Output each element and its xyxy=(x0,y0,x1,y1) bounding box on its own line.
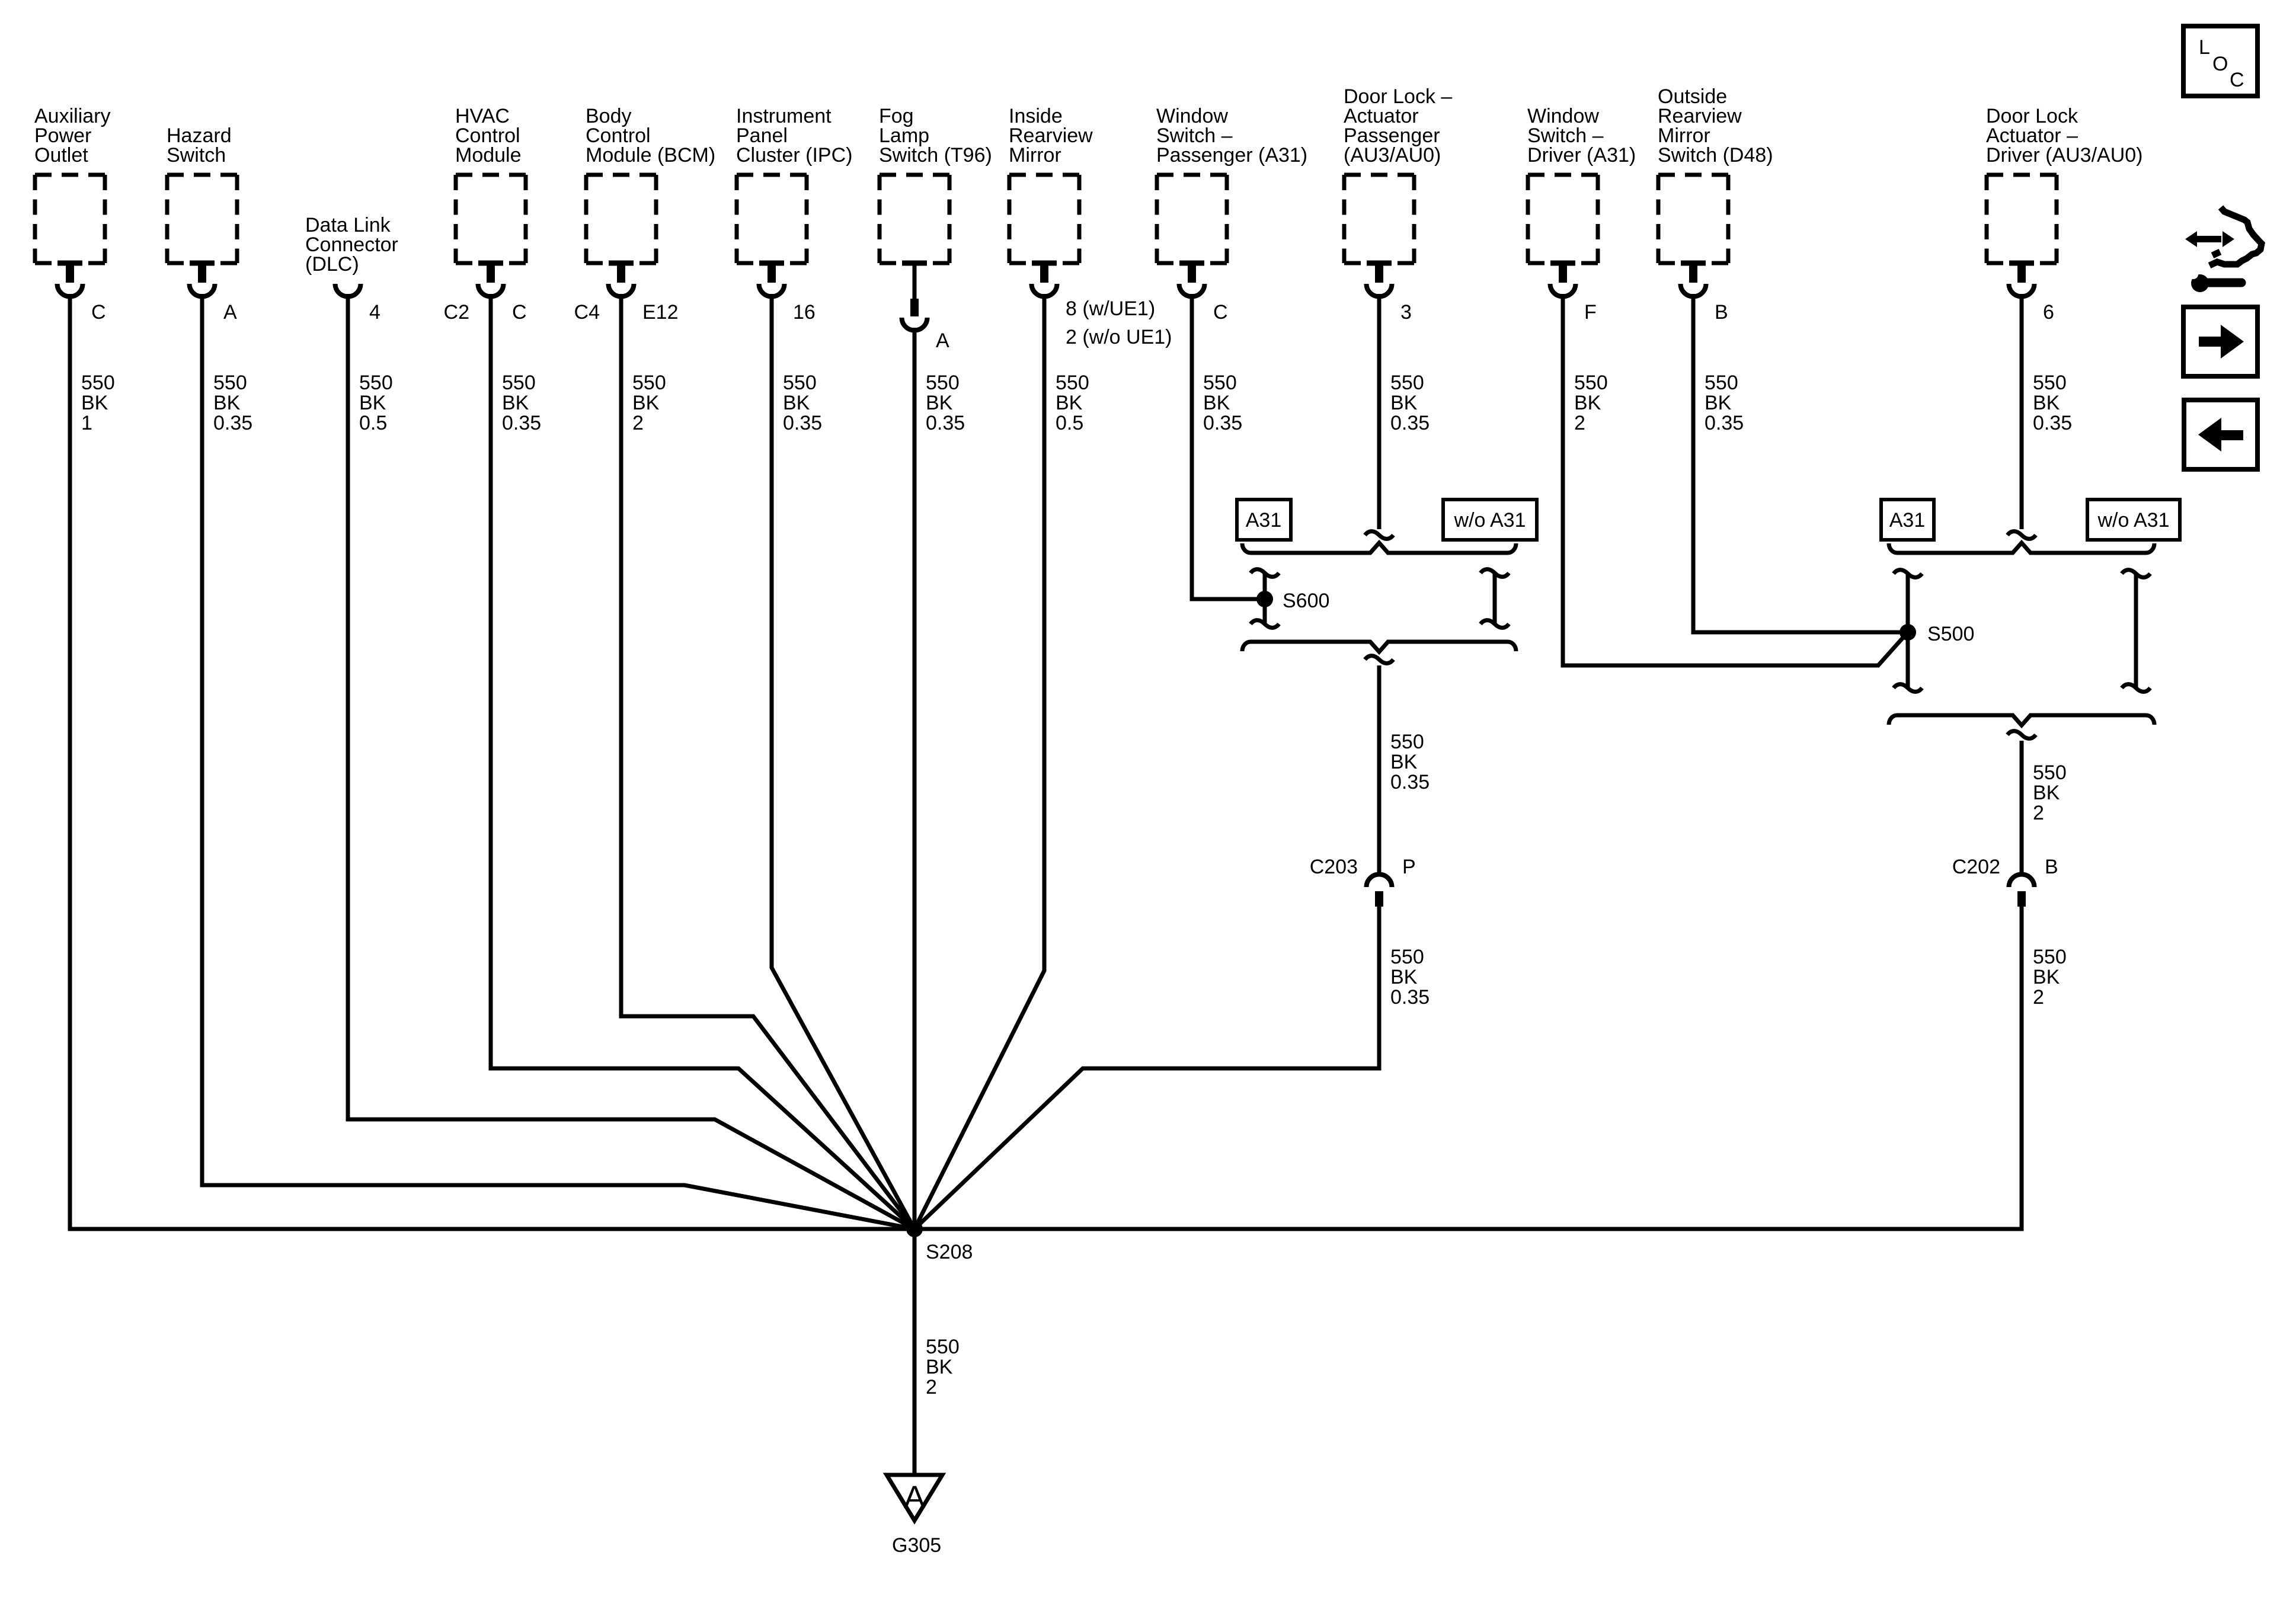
svg-text:BK: BK xyxy=(213,392,241,414)
wire: Window Switch Driver to S500 xyxy=(1563,294,1908,665)
wire label 550 BK 0.35 xyxy=(213,372,252,434)
pin label C xyxy=(1213,301,1228,324)
svg-text:(DLC): (DLC) xyxy=(305,253,359,276)
component label: HVAC Control Module xyxy=(455,105,522,167)
svg-text:S500: S500 xyxy=(1927,623,1974,645)
svg-text:BK: BK xyxy=(81,392,108,414)
svg-text:0.35: 0.35 xyxy=(1705,412,1744,434)
svg-text:2 (w/o UE1): 2 (w/o UE1) xyxy=(1066,326,1172,348)
svg-text:A: A xyxy=(223,301,237,324)
svg-text:550: 550 xyxy=(1390,372,1424,394)
svg-text:550: 550 xyxy=(359,372,393,394)
wire: Auxiliary Power Outlet to ground bus xyxy=(68,294,72,1229)
pin label A xyxy=(936,329,949,352)
connector at Fog xyxy=(902,261,927,266)
component box: Auxiliary xyxy=(35,173,105,177)
component label: Fog Lamp Switch (T96) xyxy=(879,105,992,167)
component box: Outside xyxy=(1658,173,1728,177)
wire: Door Lock Actuator Driver into option brace xyxy=(2020,294,2024,529)
svg-text:2: 2 xyxy=(632,412,644,434)
pin label 3 xyxy=(1400,301,1412,324)
svg-text:S600: S600 xyxy=(1283,590,1329,612)
wire: Hazard to S208 xyxy=(202,294,914,1229)
wire label 550 BK 0.35 (S600 to C203) xyxy=(1390,731,1430,793)
svg-text:550: 550 xyxy=(2033,372,2067,394)
svg-text:BK: BK xyxy=(2033,392,2060,414)
svg-text:550: 550 xyxy=(783,372,817,394)
wire label 550 BK 2 (to ground) xyxy=(926,1336,960,1398)
svg-text:3: 3 xyxy=(1400,301,1412,324)
component box: Door Lock – xyxy=(1344,173,1414,177)
wire label 550 BK 2 (S500 to C202) xyxy=(2033,761,2067,824)
svg-text:0.35: 0.35 xyxy=(1390,986,1430,1009)
pin label E12 xyxy=(574,301,679,324)
option brace top (S600) xyxy=(1242,543,1516,553)
svg-text:2: 2 xyxy=(2033,986,2044,1009)
svg-text:Cluster (IPC): Cluster (IPC) xyxy=(736,144,852,167)
option label box A31 (S500) xyxy=(1881,500,1934,540)
svg-text:Switch (D48): Switch (D48) xyxy=(1658,144,1773,167)
svg-text:550: 550 xyxy=(2033,946,2067,968)
connector at Instrument xyxy=(759,261,784,266)
svg-text:B: B xyxy=(2045,856,2058,878)
pin label 4 xyxy=(369,301,380,324)
component box: Window xyxy=(1157,173,1227,177)
option brace top (S500) xyxy=(1889,543,2154,553)
wire label 550 BK 0.35 xyxy=(926,372,965,434)
svg-text:550: 550 xyxy=(81,372,115,394)
svg-text:550: 550 xyxy=(1390,946,1424,968)
pin label C xyxy=(91,301,106,324)
svg-text:C: C xyxy=(1213,301,1228,324)
wire: HVAC to S208 xyxy=(491,294,914,1229)
component box: Body xyxy=(586,173,656,177)
wrench part of repair icon xyxy=(2191,274,2209,292)
svg-text:C4: C4 xyxy=(574,301,600,324)
svg-text:0.35: 0.35 xyxy=(213,412,252,434)
component box: Door Lock xyxy=(1987,173,2057,177)
connector at Window xyxy=(1179,261,1204,266)
wire: Fog Lamp Switch to S208 xyxy=(913,328,917,1229)
svg-text:F: F xyxy=(1584,301,1597,324)
wire: S500 output to C202 xyxy=(2020,741,2024,875)
wire: C203 to S208 xyxy=(914,907,1379,1229)
svg-text:w/o A31: w/o A31 xyxy=(1454,509,1526,532)
svg-text:(AU3/AU0): (AU3/AU0) xyxy=(1344,144,1441,167)
wire: C202 down to ground bus xyxy=(2020,907,2024,1231)
wire label 550 BK 0.5 xyxy=(1056,372,1089,434)
option label box w/o A31 (S600) xyxy=(1443,500,1537,540)
ground bus wire xyxy=(68,1227,2024,1231)
wire: S600 output to C203 xyxy=(1377,665,1382,875)
svg-text:16: 16 xyxy=(793,301,816,324)
wire label 550 BK 1 xyxy=(81,372,115,434)
connector at Door Lock – xyxy=(1367,261,1392,266)
svg-text:Module (BCM): Module (BCM) xyxy=(586,144,715,167)
svg-text:Mirror: Mirror xyxy=(1009,144,1061,167)
wire label 550 BK 2 (below C202) xyxy=(2033,946,2067,1009)
wire label 550 BK 0.35 xyxy=(2033,372,2072,434)
svg-text:A31: A31 xyxy=(1246,509,1282,532)
svg-text:550: 550 xyxy=(2033,761,2067,784)
svg-text:550: 550 xyxy=(1390,731,1424,753)
component box: Window xyxy=(1528,173,1598,177)
wire: Window Switch Passenger to S600 xyxy=(1192,294,1259,599)
navigation box arrow right xyxy=(2183,307,2257,376)
component box: HVAC xyxy=(456,173,526,177)
svg-text:C202: C202 xyxy=(1952,856,2000,878)
connector at Body xyxy=(609,261,634,266)
svg-text:C: C xyxy=(512,301,527,324)
connector at Hazard xyxy=(190,261,215,266)
component label: Hazard Switch xyxy=(167,124,232,167)
component label: Door Lock Actuator – Driver (AU3/AU0) xyxy=(1986,105,2142,167)
svg-text:550: 550 xyxy=(1574,372,1608,394)
svg-text:Module: Module xyxy=(455,144,522,167)
svg-text:0.5: 0.5 xyxy=(359,412,387,434)
svg-text:Outlet: Outlet xyxy=(34,144,88,167)
svg-text:BK: BK xyxy=(783,392,810,414)
option bracket w/o A31 (S600) xyxy=(1493,573,1497,624)
pin label F xyxy=(1584,301,1597,324)
svg-text:Switch (T96): Switch (T96) xyxy=(879,144,992,167)
svg-text:BK: BK xyxy=(502,392,529,414)
svg-text:C: C xyxy=(2230,69,2244,91)
svg-text:A: A xyxy=(904,1480,925,1515)
svg-text:C2: C2 xyxy=(444,301,469,324)
pin label C xyxy=(444,301,527,324)
svg-text:Driver (AU3/AU0): Driver (AU3/AU0) xyxy=(1986,144,2142,167)
pin label 6 xyxy=(2043,301,2054,324)
svg-text:E12: E12 xyxy=(642,301,679,324)
wire: S208 to G305 xyxy=(913,1229,917,1475)
component label: Window Switch – Driver (A31) xyxy=(1527,105,1636,167)
svg-text:O: O xyxy=(2212,53,2228,75)
component box: Hazard xyxy=(167,173,237,177)
svg-text:B: B xyxy=(1715,301,1728,324)
svg-text:BK: BK xyxy=(359,392,386,414)
svg-text:BK: BK xyxy=(2033,782,2060,804)
LOC reference box xyxy=(2183,26,2257,96)
svg-text:BK: BK xyxy=(1574,392,1601,414)
svg-text:0.35: 0.35 xyxy=(1203,412,1242,434)
splice S600 xyxy=(1256,591,1273,607)
svg-text:2: 2 xyxy=(2033,802,2044,824)
wire label 550 BK 0.35 (below C203) xyxy=(1390,946,1430,1009)
svg-text:550: 550 xyxy=(502,372,536,394)
svg-text:550: 550 xyxy=(926,1336,960,1358)
splice S500 xyxy=(1900,624,1916,641)
svg-text:BK: BK xyxy=(1705,392,1732,414)
svg-text:0.35: 0.35 xyxy=(926,412,965,434)
in-line connector C203 pin P xyxy=(1367,875,1392,888)
connector at Auxiliary xyxy=(57,261,82,266)
component box: Inside xyxy=(1009,173,1079,177)
option bracket A31 with splice (S500) xyxy=(1906,574,1910,688)
component label: Inside Rearview Mirror xyxy=(1009,105,1093,167)
option label box w/o A31 (S500) xyxy=(2087,500,2180,540)
svg-text:0.35: 0.35 xyxy=(2033,412,2072,434)
component box: Instrument xyxy=(737,173,807,177)
svg-text:BK: BK xyxy=(1390,751,1418,773)
wire label 550 BK 0.5 xyxy=(359,372,393,434)
connector at Outside xyxy=(1681,261,1706,266)
svg-text:550: 550 xyxy=(1705,372,1738,394)
svg-text:BK: BK xyxy=(2033,966,2060,988)
repair icon: terminal outline with double arrow and wrench xyxy=(2209,207,2262,265)
pin label A xyxy=(223,301,237,324)
svg-text:BK: BK xyxy=(1056,392,1083,414)
svg-text:Driver (A31): Driver (A31) xyxy=(1527,144,1636,167)
wire: Outside Rearview Mirror Switch to S500 xyxy=(1693,294,1902,632)
svg-text:Switch: Switch xyxy=(167,144,226,167)
wire label 550 BK 0.35 xyxy=(783,372,822,434)
navigation box arrow left xyxy=(2184,400,2257,469)
svg-text:0.5: 0.5 xyxy=(1056,412,1083,434)
svg-text:A: A xyxy=(936,329,949,352)
component box: Fog xyxy=(880,173,949,177)
option bracket A31 with splice (S600) xyxy=(1263,573,1267,624)
option brace bottom (S600) xyxy=(1242,642,1516,652)
connector at Data Link xyxy=(335,284,361,297)
svg-text:P: P xyxy=(1402,856,1416,878)
connector at HVAC xyxy=(478,261,503,266)
svg-text:1: 1 xyxy=(81,412,92,434)
wire label 550 BK 2 xyxy=(1574,372,1608,434)
connector at Door Lock xyxy=(2009,261,2034,266)
pin label B xyxy=(1715,301,1728,324)
svg-text:Passenger (A31): Passenger (A31) xyxy=(1156,144,1307,167)
ground symbol G305 xyxy=(887,1475,942,1521)
wire: Inside Rearview Mirror to S208 xyxy=(914,294,1044,1229)
wire: Body to S208 xyxy=(621,294,914,1229)
wire label 550 BK 0.35 xyxy=(1705,372,1744,434)
svg-text:A31: A31 xyxy=(1889,509,1926,532)
svg-text:BK: BK xyxy=(926,1356,953,1378)
component label: Door Lock – Actuator Passenger (AU3/AU0) xyxy=(1344,85,1452,167)
svg-text:BK: BK xyxy=(1203,392,1230,414)
wire: Data Link to S208 xyxy=(348,294,914,1229)
pin label 16 xyxy=(793,301,816,324)
component label: Outside Rearview Mirror Switch (D48) xyxy=(1658,85,1773,167)
option brace bottom (S500) xyxy=(1889,715,2154,725)
svg-text:w/o A31: w/o A31 xyxy=(2097,509,2170,532)
component label: Window Switch – Passenger (A31) xyxy=(1156,105,1307,167)
svg-text:550: 550 xyxy=(213,372,247,394)
svg-text:BK: BK xyxy=(1390,966,1418,988)
svg-text:550: 550 xyxy=(926,372,960,394)
wire label 550 BK 0.35 xyxy=(1390,372,1430,434)
svg-text:0.35: 0.35 xyxy=(1390,412,1430,434)
connector at Inside xyxy=(1032,261,1057,266)
svg-text:BK: BK xyxy=(926,392,953,414)
svg-text:550: 550 xyxy=(632,372,666,394)
component label: Instrument Panel Cluster (IPC) xyxy=(736,105,852,167)
svg-text:0.35: 0.35 xyxy=(502,412,541,434)
svg-text:4: 4 xyxy=(369,301,380,324)
svg-text:BK: BK xyxy=(632,392,660,414)
svg-text:G305: G305 xyxy=(892,1534,941,1557)
splice S208 xyxy=(906,1221,923,1237)
pin label 8 (w/UE1) xyxy=(1066,297,1172,348)
svg-text:0.35: 0.35 xyxy=(1390,771,1430,793)
svg-text:550: 550 xyxy=(1203,372,1237,394)
svg-text:550: 550 xyxy=(1056,372,1089,394)
svg-text:S208: S208 xyxy=(926,1241,973,1263)
svg-text:BK: BK xyxy=(1390,392,1418,414)
component label: Auxiliary Power Outlet xyxy=(34,105,110,167)
wire label 550 BK 2 xyxy=(632,372,666,434)
option label box A31 (S600) xyxy=(1237,500,1291,540)
in-line connector C202 pin B xyxy=(2009,875,2035,888)
wire: Door Lock Actuator Passenger into option brace xyxy=(1377,294,1382,529)
svg-text:6: 6 xyxy=(2043,301,2054,324)
svg-text:L: L xyxy=(2199,36,2210,59)
svg-text:2: 2 xyxy=(926,1376,937,1398)
component label: Data Link Connector (DLC) xyxy=(305,214,398,276)
svg-text:C: C xyxy=(91,301,106,324)
component label: Body Control Module (BCM) xyxy=(586,105,715,167)
wire label 550 BK 0.35 xyxy=(502,372,541,434)
wire label 550 BK 0.35 xyxy=(1203,372,1242,434)
option bracket w/o A31 (S500) xyxy=(2134,574,2138,688)
svg-text:2: 2 xyxy=(1574,412,1585,434)
svg-text:C203: C203 xyxy=(1310,856,1358,878)
connector at Window xyxy=(1550,261,1575,266)
svg-text:0.35: 0.35 xyxy=(783,412,822,434)
wire: Instrument Panel Cluster to S208 xyxy=(772,294,914,1229)
svg-text:8 (w/UE1): 8 (w/UE1) xyxy=(1066,297,1155,320)
